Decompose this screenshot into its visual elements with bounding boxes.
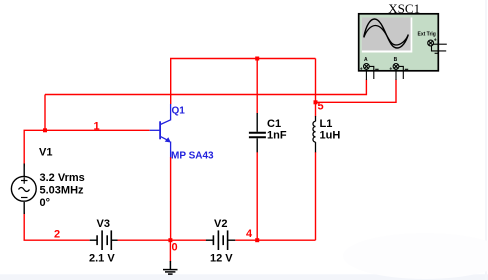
svg-text:4: 4 bbox=[246, 228, 253, 240]
svg-text:5: 5 bbox=[318, 101, 324, 113]
svg-text:2.1 V: 2.1 V bbox=[89, 253, 115, 265]
svg-text:L1: L1 bbox=[320, 118, 333, 130]
right window edge bbox=[485, 0, 487, 280]
ground bbox=[163, 261, 178, 274]
wire: top rail collector to L1 branch bbox=[171, 59, 316, 105]
svg-text:Q1: Q1 bbox=[172, 106, 186, 117]
wire: scope A tap vertical at x=45 bbox=[44, 95, 46, 131]
wire: node 1 base line from V1 to Q1 base bbox=[24, 130, 150, 166]
wire: bottom rail V2 to L1 corner bbox=[235, 239, 315, 241]
wire: bottom rail V3 to V2 bbox=[117, 239, 206, 241]
svg-text:+: + bbox=[389, 66, 392, 72]
svg-text:12 V: 12 V bbox=[210, 253, 233, 265]
svg-text:3.2 Vrms: 3.2 Vrms bbox=[40, 172, 85, 184]
junction dot node 1 tap bbox=[43, 128, 47, 132]
svg-text:+: + bbox=[360, 66, 363, 72]
oscilloscope XSC1 bbox=[359, 14, 439, 71]
svg-text:1uH: 1uH bbox=[320, 130, 341, 142]
wire: ground drop bbox=[169, 240, 171, 262]
faint highlight blob bbox=[343, 233, 488, 279]
svg-text:5.03MHz: 5.03MHz bbox=[40, 185, 85, 197]
wire: emitter drop bbox=[170, 157, 172, 240]
wire: L1 branch lower bbox=[315, 152, 317, 240]
svg-text:0: 0 bbox=[172, 242, 178, 254]
XSC1 waveform A bbox=[364, 19, 409, 48]
wire: C1 branch upper bbox=[256, 59, 258, 114]
svg-text:1nF: 1nF bbox=[267, 130, 287, 142]
XSC1 body bbox=[359, 14, 439, 71]
ac source V1 bbox=[11, 164, 36, 215]
Q1 emitter arrow bbox=[165, 137, 171, 142]
svg-text:XSC1: XSC1 bbox=[388, 1, 420, 16]
svg-text:C1: C1 bbox=[267, 118, 281, 130]
svg-text:B: B bbox=[394, 57, 398, 63]
transistor Q1 bbox=[150, 104, 171, 157]
wire: channel A line to scope bbox=[45, 80, 366, 95]
junction dot top rail / C1 bbox=[255, 57, 259, 61]
XSC1 terminal A bbox=[364, 64, 379, 81]
svg-text:+: + bbox=[434, 38, 437, 44]
XSC1 terminal B bbox=[393, 64, 408, 81]
svg-text:0°: 0° bbox=[40, 197, 51, 209]
battery V2 bbox=[206, 230, 235, 250]
svg-text:V1: V1 bbox=[39, 147, 52, 159]
inductor L1 bbox=[313, 116, 316, 152]
junction dot bottom rail / C1 bbox=[255, 238, 259, 242]
XSC1 ext trig terminal bbox=[428, 40, 447, 51]
wire: node 5 line to scope channel B bbox=[316, 80, 397, 103]
XSC1 screen white edge bbox=[362, 18, 413, 53]
bottom window strip bbox=[0, 274, 488, 280]
wire: L1 branch upper bbox=[315, 59, 317, 117]
svg-text:V2: V2 bbox=[214, 218, 227, 230]
XSC1 ext trig minus bbox=[435, 52, 438, 54]
wire: C1 branch lower bbox=[256, 152, 258, 240]
svg-text:2: 2 bbox=[54, 229, 60, 241]
svg-text:1: 1 bbox=[94, 121, 100, 133]
XSC1 waveform B bbox=[364, 26, 408, 46]
svg-text:V3: V3 bbox=[97, 218, 110, 230]
XSC1 screen bbox=[362, 18, 411, 51]
wire: V1 bottom to rail bbox=[24, 213, 90, 241]
svg-text:A: A bbox=[364, 57, 368, 63]
junction dot node 5 bbox=[314, 100, 318, 104]
battery V3 bbox=[90, 230, 118, 250]
capacitor C1 bbox=[249, 113, 266, 152]
svg-text:MP SA43: MP SA43 bbox=[171, 151, 214, 162]
junction dot node 0 bbox=[168, 238, 172, 242]
